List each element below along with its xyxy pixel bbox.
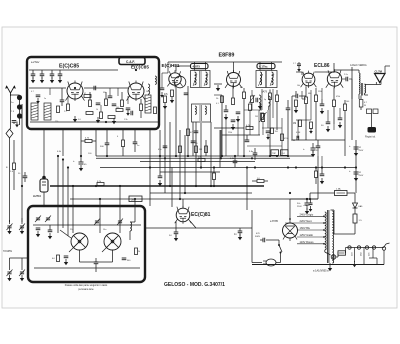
capacitor C54 left col	[21, 172, 27, 187]
svg-text:TSP: TSP	[272, 153, 277, 155]
wire left vertical bus 1	[9, 138, 11, 222]
svg-text:47k: 47k	[240, 87, 243, 89]
svg-text:16n: 16n	[103, 229, 106, 231]
resistor R21	[293, 120, 302, 127]
output socket J3	[365, 246, 370, 256]
svg-text:Regist tal.: Regist tal.	[365, 136, 376, 139]
coil L10 in T5	[260, 71, 273, 88]
svg-text:H.8105S: H.8105S	[3, 251, 12, 253]
mains plug PL1	[263, 258, 281, 266]
wire socket drops	[355, 248, 378, 265]
wire dial line 3	[169, 122, 171, 186]
wire dial line 8	[200, 123, 202, 168]
output socket J1	[348, 246, 354, 256]
tube V2 E(C)H81 triode-heptode	[167, 70, 186, 87]
svg-text:500V: 500V	[255, 236, 261, 238]
resistor R10	[187, 129, 194, 136]
IF trim arrows T1	[193, 74, 208, 86]
IF transformer T1 can	[191, 71, 211, 88]
svg-text:0A79: 0A79	[262, 91, 268, 94]
svg-text:E(C)H81: E(C)H81	[162, 63, 180, 68]
wire T7 secondary bottom	[325, 250, 330, 265]
svg-text:10: 10	[146, 91, 148, 93]
capacitor C12	[236, 112, 241, 122]
wire H2744 drop	[43, 192, 45, 206]
svg-text:470k: 470k	[284, 138, 288, 140]
capacitor C19 0.22	[291, 136, 299, 142]
wire socket rail	[346, 247, 385, 249]
wire psu drop x252	[252, 210, 262, 263]
coil L7 in T2	[195, 105, 206, 121]
wire box entries	[58, 156, 73, 236]
capacitor C43 box B	[64, 256, 69, 265]
svg-text:1n: 1n	[44, 98, 46, 100]
triode V4a ECL86	[301, 71, 317, 88]
wire ECL86 horizontals	[296, 120, 334, 168]
label Regist tal	[365, 136, 376, 139]
svg-text:GELOSO - MOD. G.3407/1: GELOSO - MOD. G.3407/1	[164, 282, 225, 288]
wire box B inner rail	[33, 224, 141, 226]
svg-text:a 8Y85: a 8Y85	[270, 220, 279, 223]
capacitor C28 1n	[234, 228, 242, 240]
svg-text:1.5k: 1.5k	[124, 119, 128, 121]
capacitor C4	[58, 70, 63, 83]
wire right drop from note	[351, 67, 353, 140]
svg-text:680: 680	[308, 93, 311, 95]
capacitor C41 below box	[133, 129, 140, 152]
capacitor C50	[245, 135, 250, 142]
capacitor C53 2.2n	[342, 74, 352, 81]
capacitor C49	[266, 131, 271, 140]
resistor R31 14	[252, 178, 268, 183]
wire ECL86 extra	[296, 72, 352, 99]
wire dial line 11	[220, 130, 222, 158]
svg-text:2.2n: 2.2n	[344, 74, 348, 76]
svg-text:2k: 2k	[138, 251, 140, 253]
FM tuner shield box	[27, 57, 159, 129]
capacitor C51	[316, 140, 321, 156]
capacitor C25 500V	[100, 138, 109, 149]
svg-text:a 1A1/9/955 a: a 1A1/9/955 a	[313, 270, 329, 273]
label left col	[18, 173, 21, 175]
capacitor C45 box A	[60, 96, 65, 106]
svg-text:CL7M: CL7M	[375, 69, 383, 73]
wire FM box lower rail	[30, 121, 158, 123]
wire antenna link	[11, 95, 23, 118]
capacitor C13	[256, 98, 262, 110]
fuse holder F2	[338, 248, 346, 256]
wire top rail drops	[168, 62, 272, 73]
resistor R27 vertical w label	[6, 140, 16, 190]
trimmer CT7 box B	[94, 219, 100, 226]
wire trimmer feed	[10, 218, 29, 262]
pickup jack BC3M	[368, 127, 377, 133]
ground ECH81	[163, 97, 174, 109]
node right bus dots	[251, 155, 357, 200]
resistor R20	[315, 88, 318, 140]
coil L11 in box	[130, 222, 132, 240]
resistor R19	[305, 86, 308, 140]
coil L1	[31, 103, 38, 120]
resistor R39 box A	[64, 104, 70, 113]
tuning gang shield box	[28, 206, 145, 282]
wire speaker return	[385, 66, 390, 74]
resistor R29 500 box	[129, 196, 142, 202]
transformer T7 windings	[325, 210, 334, 263]
svg-text:470k: 470k	[336, 96, 340, 98]
capacitor C38 line filter	[303, 199, 313, 212]
resistor R41 box A	[96, 109, 103, 119]
svg-text:a-27kA/: a-27kA/	[31, 61, 40, 64]
terminal F	[382, 243, 389, 250]
trimmer CT8 box B	[117, 219, 123, 226]
svg-text:+: +	[303, 147, 305, 151]
bus line 6	[70, 198, 318, 200]
capacitor C10	[191, 141, 199, 145]
label input 1n	[11, 102, 14, 104]
ground FM box 2	[96, 117, 100, 123]
svg-text:4.7: 4.7	[31, 91, 34, 93]
capacitor C2	[40, 70, 45, 83]
IF label box 4.17	[257, 64, 275, 69]
node tap dots	[323, 215, 325, 244]
resistor R44	[255, 113, 264, 120]
svg-text:10k: 10k	[297, 85, 300, 87]
label tuning note line2	[78, 288, 94, 291]
svg-text:47: 47	[84, 93, 86, 95]
electrolytic C34 +32/250	[349, 144, 364, 156]
capacitor C23 2.2kV	[230, 156, 237, 167]
coil L3	[148, 84, 150, 94]
svg-text:E(C)C85: E(C)C85	[59, 64, 79, 70]
svg-text:1k: 1k	[96, 109, 98, 111]
bus AGC line	[96, 155, 312, 157]
speaker LS1	[375, 74, 386, 85]
capacitor C39	[158, 146, 167, 151]
bus B+ line	[100, 167, 356, 169]
resistor R17	[276, 90, 279, 130]
capacitor C48 box A	[126, 108, 131, 116]
IF transformer T5 can	[256, 71, 277, 88]
diode D2 OA5	[353, 193, 364, 214]
wire dial line 7	[195, 122, 197, 186]
resistor R43 box A	[140, 99, 143, 118]
label box A values	[31, 91, 148, 123]
electrolytic C26 H.2744	[33, 170, 48, 198]
tube V5 EC(C)81	[175, 206, 192, 224]
resistor R37 below box	[122, 129, 125, 156]
switch contact dot 2	[17, 104, 22, 109]
resistor R3	[105, 99, 108, 106]
wire dial line 5	[179, 130, 181, 199]
resistor R38 box B	[135, 248, 141, 255]
coil L14 detector	[269, 96, 271, 110]
label input 7.5	[11, 111, 15, 113]
resistor R25 27k	[198, 157, 205, 162]
svg-text:250V: 250V	[359, 175, 364, 177]
transformer T7 tap leads	[285, 216, 324, 244]
svg-text:1M: 1M	[293, 123, 296, 125]
wire rectifier wiring	[270, 199, 290, 245]
capacitor C47 box A	[108, 96, 113, 98]
antenna	[6, 86, 16, 96]
resistor R30	[213, 168, 216, 187]
capacitor C46 box A	[94, 86, 96, 91]
svg-text:A.Ra/C VERDA: A.Ra/C VERDA	[350, 64, 367, 67]
label EBF89 values	[216, 87, 266, 134]
resistor R1	[57, 106, 60, 113]
IF trim arrows T5	[259, 74, 275, 86]
resistor R12	[232, 85, 235, 105]
svg-text:2M: 2M	[255, 116, 258, 118]
switch contact dot 1	[17, 95, 22, 100]
switch contact dot 3	[17, 113, 22, 118]
resistor R13	[243, 88, 246, 156]
svg-text:H.2744: H.2744	[33, 195, 41, 198]
svg-text:4.875: 4.875	[193, 65, 201, 69]
ground PSU socket	[352, 261, 356, 267]
wire heater run	[325, 252, 331, 255]
node bus junctions2	[43, 155, 278, 207]
wire EBF89 bottom mesh	[214, 84, 260, 135]
svg-text:W: W	[364, 105, 366, 107]
resistor R23	[344, 100, 347, 156]
wire diode branch	[334, 230, 355, 234]
bus top rail	[168, 61, 282, 63]
ground FM box 3	[112, 118, 116, 124]
svg-text:250V: 250V	[359, 150, 364, 152]
transformer T7 primary taps	[300, 212, 314, 244]
resistor R48	[195, 140, 198, 156]
coil L13 detector	[259, 95, 261, 135]
switch S2 mains	[278, 244, 282, 258]
electrolytic C24 +45	[73, 156, 87, 171]
svg-text:E8F89: E8F89	[219, 53, 235, 59]
capacitor C1	[31, 70, 36, 83]
pentode V4b ECL86	[326, 69, 343, 88]
svg-text:220k: 220k	[228, 132, 232, 134]
label a-27kA	[31, 61, 40, 64]
triode V1a E(C)C85	[66, 81, 85, 102]
svg-text:22n: 22n	[70, 229, 73, 231]
svg-text:1M: 1M	[199, 149, 202, 151]
IF label box 4.875	[191, 64, 209, 69]
resistor R47 vol pot	[249, 90, 255, 110]
tube label ECL86	[314, 63, 330, 69]
wire dial line 4	[175, 90, 177, 156]
trimmer CT1	[35, 216, 41, 223]
wire ECH81 grid extra	[160, 73, 168, 98]
svg-text:220k: 220k	[318, 91, 322, 93]
coil L4	[145, 95, 151, 113]
resistor R8	[171, 90, 174, 97]
svg-text:E(C)C85: E(C)C85	[131, 65, 149, 70]
capacitor C55 tone box1	[271, 150, 279, 156]
resistor R46	[309, 122, 313, 134]
wire box A mesh	[50, 88, 128, 112]
wire EBF89 plate	[221, 95, 223, 156]
diamond node D1	[6, 129, 13, 138]
svg-text:110V Rosso: 110V Rosso	[300, 240, 314, 244]
svg-text:220V Nero: 220V Nero	[300, 219, 313, 223]
svg-text:0.5M: 0.5M	[296, 132, 301, 134]
C.A.F. box	[119, 58, 145, 65]
resistor R42 box A	[116, 107, 123, 112]
wire top rail of FM box	[29, 69, 118, 71]
capacitor C3	[50, 70, 55, 83]
svg-text:EC(C)81: EC(C)81	[191, 212, 211, 218]
electrolytic C37 34+34	[297, 199, 310, 214]
wire fuse line	[290, 193, 355, 199]
svg-text:1.5A: 1.5A	[336, 188, 341, 191]
wire below FM box drops	[81, 129, 107, 156]
pilot lamp LP1	[331, 252, 338, 259]
svg-text:125V Giallo: 125V Giallo	[300, 233, 314, 237]
wire ECH81 verticals	[176, 85, 193, 157]
wire ECL86 mesh	[292, 70, 345, 140]
electrolytic C22 +32 250V	[303, 143, 319, 157]
wire left vertical bus 2	[21, 104, 23, 222]
capacitor C7	[131, 111, 133, 116]
resistor R35	[179, 146, 182, 153]
resistor R32 in box	[52, 255, 60, 262]
output socket J2	[357, 246, 362, 256]
capacitor C29 54	[169, 228, 178, 241]
capacitor C30 in box	[36, 228, 41, 237]
capacitor C32 in box	[122, 258, 132, 262]
wire dial line 9	[205, 140, 207, 156]
bus line 2	[140, 161, 255, 163]
triode V1b E(C)C85	[127, 81, 146, 102]
node FM box junctions	[74, 69, 137, 123]
resistor R34	[315, 168, 318, 185]
resistor R7	[108, 116, 115, 119]
bus line 4	[160, 171, 220, 173]
tube label E(C)H81	[162, 63, 180, 68]
wire ECH81 top feed	[176, 66, 191, 72]
label gang values	[70, 229, 106, 231]
svg-text:160V Blu: 160V Blu	[300, 226, 311, 230]
coil L12 box A	[155, 76, 156, 84]
wire T6 secondary	[359, 93, 368, 99]
label ECL86 values	[296, 85, 349, 134]
wire dial line 2	[164, 108, 166, 193]
capacitor C18	[320, 99, 325, 114]
coil L2	[44, 103, 51, 120]
wire psu mesh	[331, 210, 335, 234]
svg-text:100: 100	[346, 101, 349, 103]
capacitor C33 470/500V	[255, 233, 270, 242]
resistor R5	[154, 107, 157, 114]
svg-text:33k: 33k	[103, 92, 106, 94]
capacitor C16	[286, 100, 291, 156]
resistor R40 box A	[84, 93, 91, 98]
wire ECC81 connections	[176, 199, 196, 228]
wire EBF89 horizontals	[214, 95, 282, 146]
wire box entries right	[100, 186, 135, 233]
wire ECL86 verticals2	[298, 88, 340, 138]
trimmer CT6	[19, 262, 25, 281]
capacitor C21 cathode	[321, 122, 330, 132]
label UY85	[270, 220, 279, 223]
tube label EBF89	[219, 53, 235, 59]
trimmer CT4	[19, 222, 25, 234]
svg-text:ECL86: ECL86	[314, 63, 330, 69]
capacitor C36	[320, 168, 325, 184]
speaker label C.7M	[375, 69, 383, 73]
trimmer CT5	[7, 262, 13, 281]
capacitor C14	[231, 120, 236, 130]
capacitor C44 box A	[36, 95, 41, 104]
capacitor C6	[112, 104, 117, 106]
capacitor C40	[194, 131, 199, 133]
resistor R9	[164, 94, 169, 103]
title GELOSO MOD G.3407/1	[164, 282, 225, 288]
tube V3 EBF89	[225, 70, 242, 89]
ground PSU transformer	[328, 265, 332, 271]
bus line y228	[145, 227, 252, 229]
bus AGC pair line	[96, 157, 290, 159]
capacitor C27	[158, 172, 163, 186]
resistor R16	[246, 125, 253, 130]
bus line 5	[150, 192, 252, 194]
wire box B lower rail	[34, 267, 140, 269]
svg-text:OA5: OA5	[358, 205, 363, 208]
resistor R18	[294, 100, 298, 113]
wire dial line 1	[159, 130, 161, 172]
ground EBF89 grid	[216, 85, 220, 91]
capacitor C52 top	[293, 62, 301, 72]
capacitor C17 coupling	[292, 94, 306, 99]
electrolytic C35 +32/250	[349, 169, 364, 181]
output socket J4	[372, 246, 375, 249]
resistor R15	[269, 90, 272, 157]
label H.8105S	[3, 251, 12, 253]
capacitor C42 box B	[48, 225, 53, 239]
resistor R33 1.5	[353, 214, 362, 230]
output transformer T6	[359, 73, 366, 96]
label date code	[313, 270, 329, 273]
coil L5 in T1	[195, 71, 208, 87]
svg-text:5.6: 5.6	[78, 119, 81, 121]
resistor R6	[86, 112, 93, 115]
trimmer CT3	[7, 222, 13, 234]
capacitor C8 input	[12, 121, 19, 128]
svg-text:100: 100	[116, 107, 119, 109]
wire pentode plate to T6	[334, 63, 381, 85]
tube label E(C)C85 first	[59, 64, 79, 70]
wire below box drops2	[44, 129, 150, 170]
capacitor C9	[184, 93, 189, 95]
resistor R28 F7k	[97, 181, 104, 186]
svg-text:C.A.F.: C.A.F.	[126, 60, 135, 64]
capacitor C11	[224, 105, 229, 120]
wiring note text	[350, 64, 367, 67]
potentiometer P1 volume	[260, 112, 267, 135]
tube label E(C)C85 second	[131, 65, 149, 70]
svg-text:0.1: 0.1	[216, 103, 219, 105]
resistor R36	[199, 146, 208, 153]
IF transformer T2 can	[192, 104, 211, 122]
wire EBF89 verticals2	[226, 89, 282, 156]
label below box values	[57, 136, 119, 155]
svg-text:250V: 250V	[297, 206, 302, 208]
resistor R14	[249, 104, 252, 111]
resistor R2	[89, 100, 92, 107]
svg-text:Fissare volta lato parte soq: Fissare volta lato parte soqporto in tas…	[65, 284, 108, 287]
tone switch S1	[367, 109, 379, 127]
wire FM box mid	[29, 87, 128, 89]
